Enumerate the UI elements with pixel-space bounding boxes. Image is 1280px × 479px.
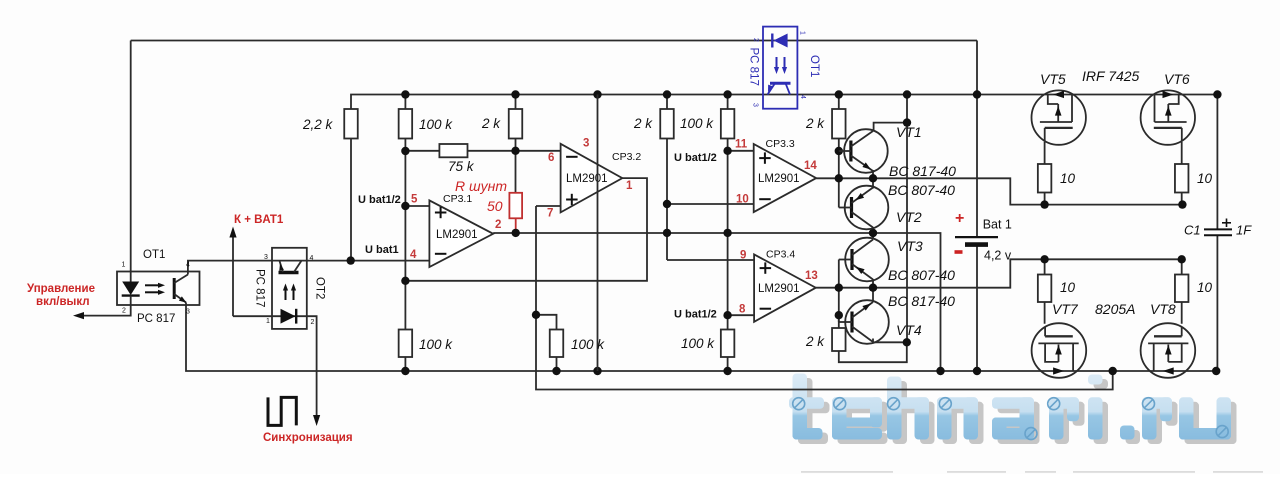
svg-text:LM2901: LM2901 <box>758 173 800 185</box>
svg-text:5: 5 <box>411 194 418 206</box>
svg-text:2,2 k: 2,2 k <box>302 117 334 132</box>
svg-text:10: 10 <box>736 194 749 206</box>
svg-text:100 k: 100 k <box>680 116 714 131</box>
svg-text:2 k: 2 k <box>805 116 825 131</box>
svg-text:VT7: VT7 <box>1052 301 1079 317</box>
svg-text:OT1: OT1 <box>808 55 820 77</box>
svg-text:2: 2 <box>495 219 501 231</box>
svg-text:BC 817-40: BC 817-40 <box>889 163 956 179</box>
svg-text:3: 3 <box>264 254 268 261</box>
svg-text:8205A: 8205A <box>1095 301 1135 317</box>
svg-text:LM2901: LM2901 <box>566 173 608 185</box>
svg-text:2: 2 <box>122 308 126 315</box>
svg-text:10: 10 <box>1197 171 1213 186</box>
svg-text:1: 1 <box>626 180 633 192</box>
svg-text:10: 10 <box>1197 280 1213 295</box>
svg-text:U bat1: U bat1 <box>365 244 399 256</box>
svg-text:2 k: 2 k <box>805 334 825 349</box>
svg-text:BC 817-40: BC 817-40 <box>888 293 955 309</box>
svg-text:100 k: 100 k <box>419 117 453 132</box>
svg-text:7: 7 <box>547 208 553 220</box>
svg-text:14: 14 <box>804 160 817 172</box>
svg-text:6: 6 <box>548 152 554 164</box>
svg-text:1: 1 <box>122 262 126 269</box>
svg-text:VT6: VT6 <box>1164 71 1190 87</box>
svg-text:8: 8 <box>739 304 746 316</box>
svg-text:C1: C1 <box>1184 223 1201 238</box>
svg-text:U bat1/2: U bat1/2 <box>674 309 717 321</box>
svg-text:2 k: 2 k <box>481 116 501 131</box>
svg-text:100 k: 100 k <box>681 336 715 351</box>
svg-text:3: 3 <box>752 103 759 107</box>
svg-text:9: 9 <box>740 250 746 262</box>
svg-text:Bat 1: Bat 1 <box>983 218 1012 232</box>
svg-text:PC 817: PC 817 <box>137 313 175 325</box>
svg-text:BC 807-40: BC 807-40 <box>888 267 955 283</box>
svg-text:4: 4 <box>186 262 190 269</box>
svg-text:R шунт: R шунт <box>455 178 507 194</box>
svg-text:Синхронизация: Синхронизация <box>263 432 353 444</box>
svg-text:2: 2 <box>311 319 315 326</box>
svg-text:VT8: VT8 <box>1150 301 1176 317</box>
svg-text:BC 807-40: BC 807-40 <box>888 182 955 198</box>
svg-text:CP3.1: CP3.1 <box>443 193 472 205</box>
svg-text:VT4: VT4 <box>896 322 922 338</box>
svg-text:OT1: OT1 <box>143 249 165 261</box>
svg-text:3: 3 <box>583 138 589 150</box>
svg-text:CP3.3: CP3.3 <box>766 138 795 150</box>
svg-text:VT3: VT3 <box>897 238 923 254</box>
svg-text:4: 4 <box>799 95 806 99</box>
svg-text:IRF 7425: IRF 7425 <box>1082 68 1140 84</box>
svg-text:75 k: 75 k <box>448 159 475 174</box>
svg-text:2: 2 <box>752 38 759 42</box>
svg-text:100 k: 100 k <box>571 337 605 352</box>
svg-text:OT2: OT2 <box>314 277 326 299</box>
svg-text:Управление: Управление <box>27 283 95 295</box>
svg-text:13: 13 <box>805 270 818 282</box>
svg-text:100 k: 100 k <box>419 337 453 352</box>
svg-text:10: 10 <box>1060 280 1076 295</box>
svg-text:50: 50 <box>487 198 503 214</box>
svg-text:4,2 v: 4,2 v <box>984 249 1012 263</box>
svg-text:11: 11 <box>735 139 748 151</box>
svg-text:CP3.4: CP3.4 <box>766 249 795 261</box>
svg-text:VT5: VT5 <box>1040 71 1066 87</box>
svg-text:10: 10 <box>1060 171 1076 186</box>
svg-text:U bat1/2: U bat1/2 <box>358 194 401 206</box>
svg-text:3: 3 <box>186 309 190 316</box>
svg-text:VT2: VT2 <box>896 209 922 225</box>
svg-text:вкл/выкл: вкл/выкл <box>36 296 90 308</box>
svg-text:VT1: VT1 <box>896 124 922 140</box>
svg-text:PC 817: PC 817 <box>254 269 266 307</box>
svg-text:1: 1 <box>799 31 806 35</box>
svg-text:LM2901: LM2901 <box>758 283 800 295</box>
svg-text:+: + <box>955 210 964 227</box>
svg-text:К + BAT1: К + BAT1 <box>234 214 284 226</box>
svg-text:CP3.2: CP3.2 <box>612 151 641 163</box>
svg-text:4: 4 <box>310 255 314 262</box>
svg-text:LM2901: LM2901 <box>436 229 478 241</box>
svg-text:PC 817: PC 817 <box>748 48 760 86</box>
svg-text:2 k: 2 k <box>633 116 653 131</box>
svg-text:1F: 1F <box>1236 223 1252 238</box>
svg-text:4: 4 <box>410 249 417 261</box>
svg-text:1: 1 <box>266 318 270 325</box>
svg-text:U bat1/2: U bat1/2 <box>674 152 717 164</box>
